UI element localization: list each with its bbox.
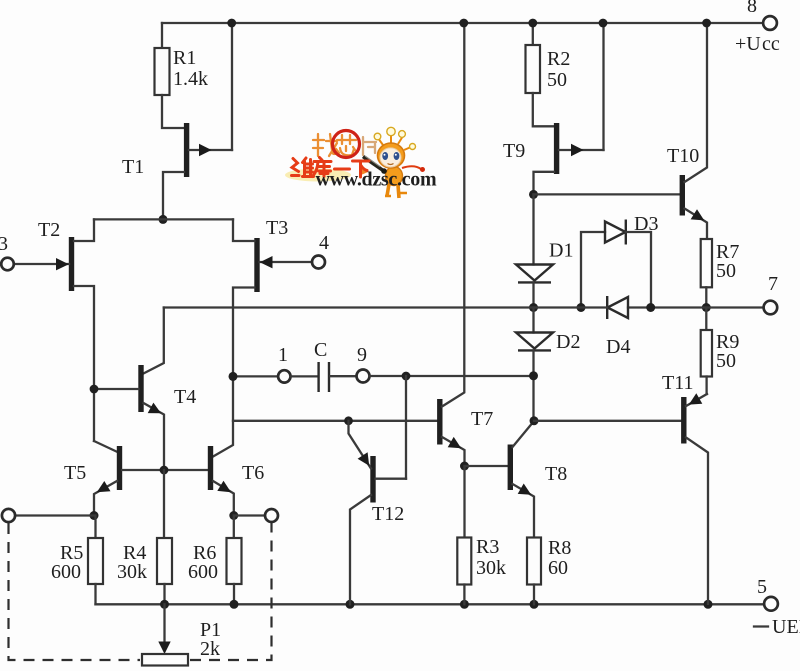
- node dot on T3 source line: [229, 372, 238, 381]
- wire T11 base line: [534, 420, 682, 422]
- diode D4: [606, 296, 630, 358]
- diode D3: [605, 213, 658, 245]
- pin 7 terminal: [764, 273, 778, 314]
- svg-text:R1: R1: [173, 47, 196, 69]
- svg-text:50: 50: [716, 260, 736, 282]
- node dot T7 collector on rail: [459, 19, 468, 28]
- wire R1 bottom to T1 drain: [162, 95, 184, 128]
- svg-text:1.4k: 1.4k: [173, 68, 208, 90]
- transistor T1: [122, 123, 232, 178]
- node dot R2 on rail: [528, 19, 537, 28]
- svg-text:T9: T9: [503, 140, 525, 162]
- svg-text:600: 600: [51, 561, 81, 583]
- svg-text:T8: T8: [545, 463, 567, 485]
- svg-text:9: 9: [357, 344, 367, 366]
- transistor T2: [14, 219, 94, 441]
- pin 1 terminal: [278, 344, 290, 383]
- node dot T12 base riser: [402, 372, 411, 381]
- svg-text:7: 7: [768, 273, 778, 295]
- wire T2 T3 drain bus: [94, 218, 233, 220]
- node dot T10 collector on rail: [702, 19, 711, 28]
- node dot R8 on rail: [530, 600, 539, 609]
- transistor T9: [503, 123, 604, 174]
- pin 3 terminal: [0, 233, 14, 270]
- transistor T10: [667, 23, 707, 239]
- node dot T1 gate on rail: [227, 19, 236, 28]
- red brand text strokes: [292, 158, 370, 178]
- resistor R3: [457, 466, 506, 585]
- transistor T6: [211, 446, 265, 516]
- wire T10 base line: [534, 193, 681, 195]
- pin 8 terminal +Ucc: [735, 0, 780, 55]
- svg-text:2k: 2k: [200, 638, 220, 660]
- node dot T12 emitter junction: [344, 416, 353, 425]
- svg-text:R3: R3: [476, 536, 499, 558]
- svg-text:+U: +U: [735, 33, 761, 55]
- wire R1 top stem: [161, 23, 163, 48]
- node dot T6 emitter junction: [229, 511, 238, 520]
- node dot R6 on rail: [230, 600, 239, 609]
- node dot T4 base: [90, 385, 99, 394]
- node dot loop left: [577, 303, 586, 312]
- diode D2: [516, 308, 580, 421]
- svg-text:D4: D4: [606, 336, 630, 358]
- svg-text:600: 600: [188, 561, 218, 583]
- wire T1 source down: [163, 172, 184, 219]
- wire T4 collector riser: [144, 308, 164, 374]
- svg-text:D2: D2: [556, 331, 580, 353]
- svg-text:T5: T5: [64, 462, 86, 484]
- wire T8 base line: [465, 465, 509, 467]
- svg-text:U: U: [772, 616, 787, 638]
- resistor R1: [155, 47, 209, 95]
- svg-text:www.dzsc.com: www.dzsc.com: [316, 169, 437, 191]
- svg-text:T6: T6: [242, 462, 264, 484]
- pin 9 terminal: [357, 344, 370, 383]
- svg-text:3: 3: [0, 233, 8, 255]
- transistor T4: [94, 365, 196, 470]
- wire right null pin line: [234, 514, 265, 516]
- dashed wire right null pin to P1: [190, 523, 272, 660]
- transistor T8: [510, 421, 567, 538]
- magnifier ring of logo: [333, 131, 360, 158]
- svg-text:30k: 30k: [476, 557, 506, 579]
- transistor T5: [64, 446, 120, 516]
- wire D3 loop left leg: [581, 232, 605, 308]
- svg-text:4: 4: [319, 232, 329, 254]
- wire left null pin line: [15, 514, 94, 516]
- wire T9 gate up to rail: [602, 23, 604, 150]
- wire R8 bottom stem: [533, 585, 535, 605]
- svg-text:T10: T10: [667, 145, 699, 167]
- pin 4 terminal: [312, 232, 329, 269]
- node dot T8 collector junction: [530, 416, 539, 425]
- node dot T9 source junction: [529, 190, 538, 199]
- wire T5 collector riser: [94, 441, 118, 452]
- svg-text:5: 5: [757, 576, 767, 598]
- svg-text:30k: 30k: [117, 561, 147, 583]
- potentiometer P1: [142, 604, 221, 665]
- node dot on D1 D2 column: [529, 371, 538, 380]
- svg-text:R8: R8: [548, 537, 571, 559]
- resistor R8: [527, 537, 571, 585]
- node dot T9 gate on rail: [599, 19, 608, 28]
- wire R4 bottom stem: [163, 584, 165, 604]
- wire T9 source down: [534, 172, 555, 195]
- svg-text:8: 8: [747, 0, 757, 17]
- node dot T7 emitter T8 base: [460, 462, 469, 471]
- svg-text:T3: T3: [266, 217, 288, 239]
- svg-text:T2: T2: [38, 219, 60, 241]
- wire pin9 line to D2 node: [370, 375, 534, 377]
- diode D1: [516, 194, 573, 307]
- top +Ucc rail wire: [162, 22, 763, 24]
- wire R7 bottom stem: [705, 287, 707, 307]
- node dot loop right: [646, 303, 655, 312]
- resistor R2: [526, 45, 571, 93]
- node dot R3 on rail: [460, 600, 469, 609]
- svg-text:cc: cc: [762, 33, 780, 55]
- svg-text:60: 60: [548, 557, 568, 579]
- wire R5 bottom stem: [94, 584, 96, 604]
- wire main output line from T4 collector: [164, 306, 607, 308]
- svg-text:R2: R2: [547, 48, 570, 70]
- pin 5 terminal -Uee: [754, 576, 800, 638]
- svg-text:1: 1: [278, 344, 288, 366]
- wire T5 T6 base line: [122, 469, 208, 471]
- svg-text:T1: T1: [122, 156, 144, 178]
- svg-text:D1: D1: [549, 240, 573, 262]
- svg-text:C: C: [314, 339, 327, 361]
- svg-text:T7: T7: [471, 408, 493, 430]
- wire D3 loop right leg: [626, 232, 651, 308]
- node dot T12 collector on rail: [346, 600, 355, 609]
- svg-text:T12: T12: [372, 503, 404, 525]
- node dot T11 emitter on rail: [704, 600, 713, 609]
- node dot D1 output line: [529, 303, 538, 312]
- wire R6 bottom stem: [233, 584, 235, 604]
- orange find-chip glyph strokes: [313, 134, 356, 156]
- transistor T7: [440, 23, 493, 466]
- svg-text:T11: T11: [662, 372, 693, 394]
- wire T12 base riser: [405, 376, 407, 479]
- null offset terminal left: [2, 509, 15, 522]
- resistor R7: [701, 239, 740, 287]
- wire output line to pin 7: [628, 306, 764, 308]
- wire R2 bottom to T9 drain: [533, 93, 554, 126]
- wire bottom -Uee rail: [96, 603, 765, 605]
- watermark logo: [285, 127, 437, 198]
- resistor R6: [188, 516, 242, 585]
- node dot P1 wiper on rail: [160, 600, 169, 609]
- svg-text:50: 50: [547, 69, 567, 91]
- resistor R5: [51, 516, 103, 585]
- null offset terminal right: [265, 509, 278, 522]
- node dot T5 emitter junction: [90, 511, 99, 520]
- resistor R9: [701, 308, 740, 377]
- svg-text:EE: EE: [787, 616, 800, 638]
- transistor T11: [662, 372, 708, 604]
- wire T1 gate up to rail: [231, 23, 233, 150]
- resistor R4: [117, 470, 172, 584]
- transistor T12: [349, 421, 407, 605]
- transistor T3: [213, 217, 312, 457]
- wire R9 bottom stem: [705, 377, 707, 395]
- wire R3 bottom stem: [463, 585, 465, 605]
- wire T7 base line: [233, 420, 438, 422]
- svg-text:50: 50: [716, 350, 736, 372]
- dashed wire left null pin to P1: [9, 523, 141, 660]
- capacitor C: [291, 339, 357, 392]
- node dot base center: [160, 466, 169, 475]
- mascot: [360, 127, 425, 198]
- svg-text:T4: T4: [174, 386, 196, 408]
- wire R2 top stem: [532, 23, 534, 45]
- node dot R7 R9 pin7 junction: [702, 303, 711, 312]
- node dot T1 source junction: [159, 215, 168, 224]
- wire pin1 line from T3 source: [233, 375, 278, 377]
